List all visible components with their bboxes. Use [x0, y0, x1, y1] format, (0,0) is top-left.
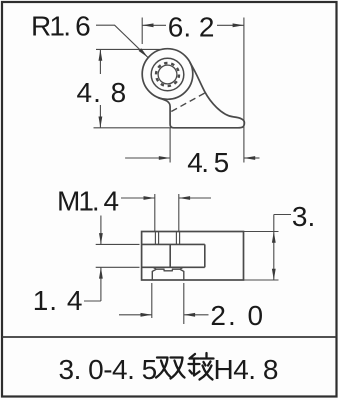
- dim 1.4 leader to text: [84, 300, 101, 302]
- hanzi 双 (double) drawn as strokes: [156, 358, 185, 379]
- arrowhead 6.2 left: [142, 23, 153, 27]
- arrowhead 4.8 down: [99, 117, 103, 128]
- top view: boss middle circle: [151, 58, 184, 91]
- dim 1.4 lower arrow shaft: [100, 267, 102, 301]
- top view: hidden dashed line: [171, 93, 205, 112]
- dimension and extension lines: [84, 18, 291, 325]
- dim 6.2 line right segment: [217, 24, 244, 26]
- svg-text:3. 0-4. 5: 3. 0-4. 5: [59, 354, 157, 385]
- svg-text:1. 4: 1. 4: [33, 285, 84, 316]
- side view: thread line 1: [154, 232, 156, 245]
- side view: outer body rectangle: [142, 232, 244, 281]
- hanzi 铰 (hinge) drawn as strokes: [189, 353, 214, 380]
- dim 4.8 line lower segment: [99, 105, 101, 128]
- arrowhead M1.4 right pointing left: [179, 196, 190, 200]
- arrowhead 3.0 up: [272, 232, 276, 243]
- dim 6.2 / 4.5 right extension line: [243, 18, 245, 163]
- top view: boss outer circle: [142, 49, 193, 100]
- dimension texts: [31, 11, 315, 332]
- top view: spline teeth ring: [156, 63, 179, 86]
- side view: spline hub profile: [152, 267, 184, 280]
- arrowhead 4.5 left pointing right: [159, 156, 170, 160]
- svg-text:H4. 8: H4. 8: [214, 354, 278, 385]
- dim M1.4 right extension line: [178, 194, 180, 232]
- dim 4.8 line upper segment: [99, 49, 101, 74]
- svg-text:2. 0: 2. 0: [210, 300, 265, 331]
- dim 2.0 right extension line: [183, 283, 185, 324]
- arrowheads: [99, 23, 276, 316]
- dim 1.4 upper arrow shaft: [100, 216, 102, 245]
- side view: thread line 3: [175, 232, 177, 245]
- dim 2.0 left extension line: [151, 283, 153, 318]
- dim 4.8 top extension line: [96, 48, 161, 50]
- dim 1.4 bottom extension line: [96, 266, 140, 268]
- dim 3.0 bottom extension line: [244, 279, 279, 281]
- svg-text:4. 8: 4. 8: [77, 77, 128, 108]
- svg-text:M1. 4: M1. 4: [57, 185, 118, 216]
- side view: hub edge vertical in slot: [169, 244, 171, 267]
- arrowhead 3.0 down: [272, 269, 276, 280]
- dim 3.0 vertical line: [273, 215, 275, 281]
- top view: cam arm outline: [158, 62, 244, 127]
- arrowhead R1.6 leader: [139, 48, 149, 57]
- arrowhead 1.4 bottom pointing up: [99, 267, 103, 278]
- dim 2.0 right shaft: [184, 314, 209, 316]
- side view: slot top edge: [142, 243, 205, 245]
- dim M1.4 left extension line: [154, 194, 156, 232]
- dim 6.2 left extension line: [141, 18, 143, 45]
- dim 6.2 line left segment: [142, 24, 166, 26]
- side view: slot end vertical: [204, 244, 206, 267]
- leader R1.6: [96, 25, 148, 57]
- side view: thread line 2: [158, 232, 160, 245]
- side view: slot bottom edge: [142, 266, 205, 268]
- arrowhead 4.5 right pointing left: [244, 156, 255, 160]
- arrowhead M1.4 left pointing right: [144, 196, 155, 200]
- title separator line: [2, 336, 337, 338]
- dim M1.4 right shaft: [179, 197, 211, 199]
- dim 1.4 top extension line: [96, 243, 140, 245]
- dim 4.5 left extension line: [169, 128, 171, 163]
- arrowhead 2.0 right pointing left: [184, 313, 195, 317]
- dim 4.5 right outside shaft: [244, 157, 260, 159]
- dim 3.0 top extension line: [244, 231, 279, 233]
- side view: thread line 4: [179, 232, 181, 245]
- svg-text:6. 2: 6. 2: [168, 12, 215, 43]
- arrowhead 6.2 right: [233, 23, 244, 27]
- svg-text:3.: 3.: [292, 201, 315, 232]
- title text 3.0-4.5: [59, 354, 278, 385]
- top view: spline bore inner circle: [158, 65, 177, 84]
- dim M1.4 left shaft: [121, 197, 155, 199]
- arrowhead 4.8 up: [99, 49, 103, 60]
- arrowhead 2.0 left pointing right: [141, 313, 152, 317]
- svg-text:R1. 6: R1. 6: [31, 11, 90, 42]
- svg-text:4. 5: 4. 5: [187, 147, 228, 178]
- dim 3.0 elbow to text: [274, 214, 291, 216]
- dim 4.5 left outside shaft: [125, 157, 170, 159]
- dim 2.0 left shaft: [119, 314, 152, 316]
- arrowhead 1.4 top pointing down: [99, 233, 103, 244]
- dim 4.8 bottom extension line: [94, 127, 172, 129]
